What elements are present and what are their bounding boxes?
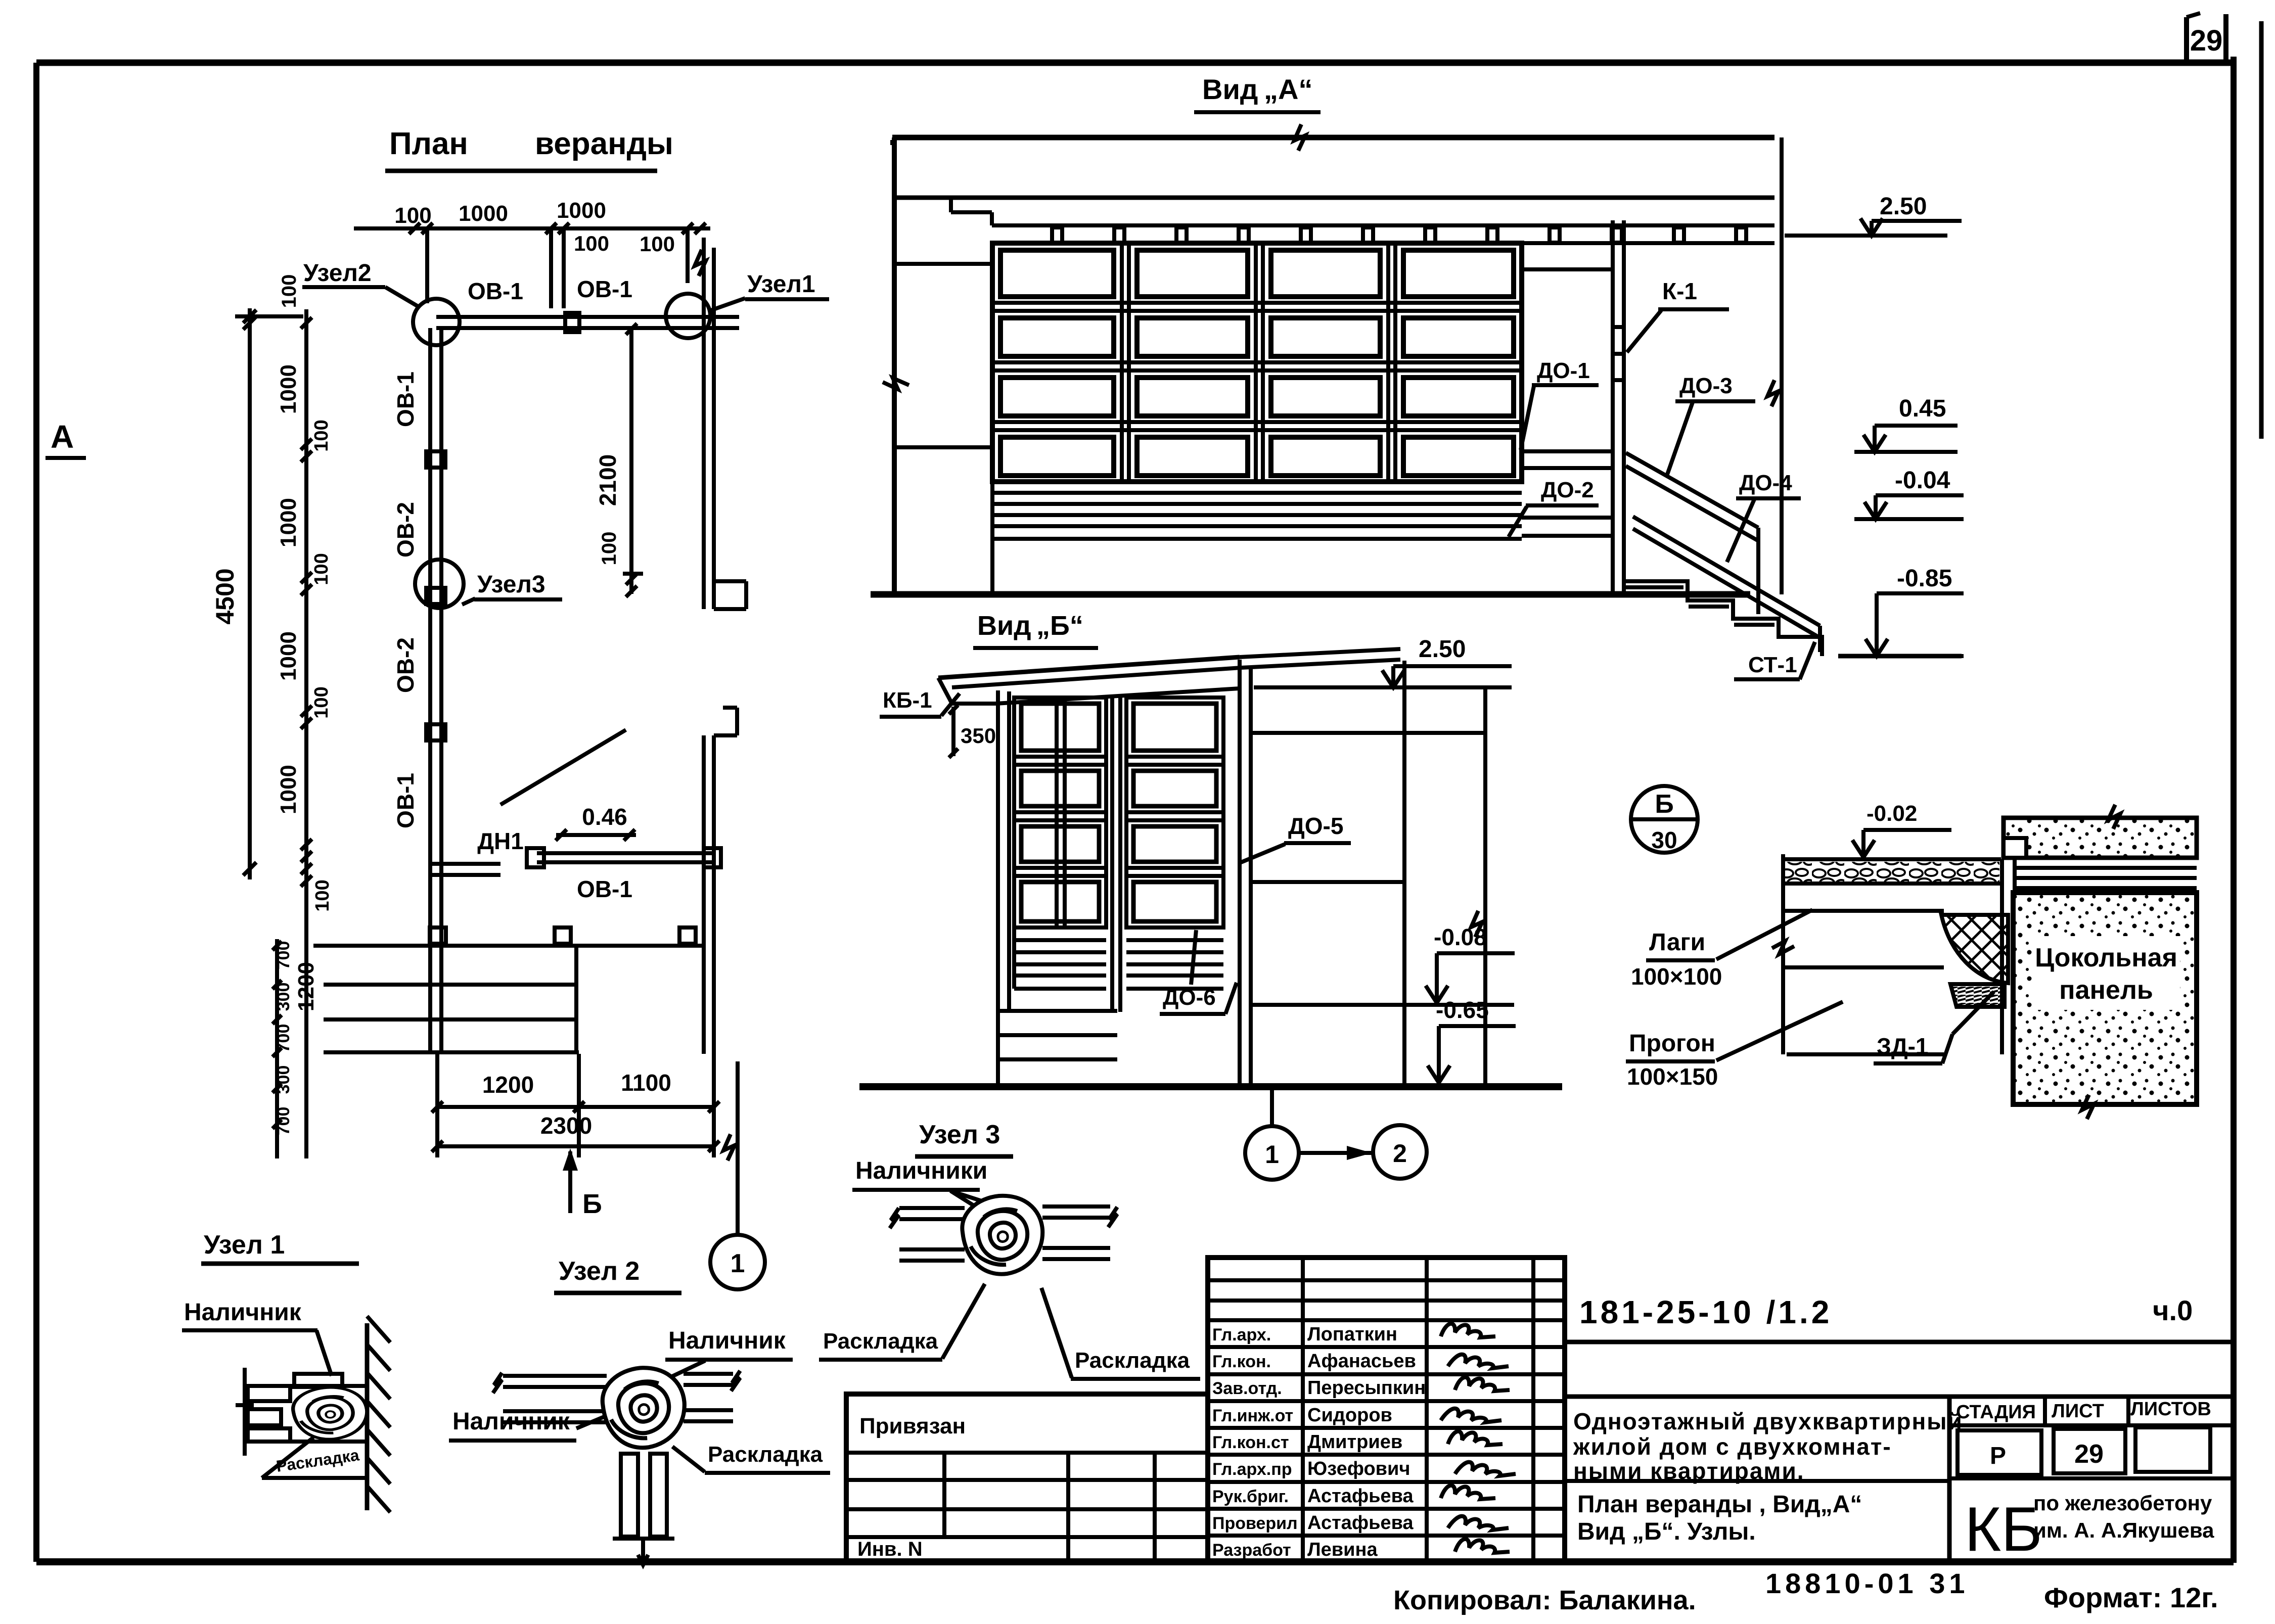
svg-text:Узел1: Узел1 xyxy=(747,271,815,298)
svg-text:1100: 1100 xyxy=(621,1070,671,1096)
svg-text:жилой дом с двухкомнат-: жилой дом с двухкомнат- xyxy=(1573,1433,1892,1460)
svg-text:1000: 1000 xyxy=(276,631,301,681)
svg-text:ДО-4: ДО-4 xyxy=(1739,471,1792,495)
svg-text:350: 350 xyxy=(961,724,996,748)
svg-text:ОВ-2: ОВ-2 xyxy=(392,502,419,558)
svg-text:Левина: Левина xyxy=(1307,1539,1378,1560)
svg-text:Узел 2: Узел 2 xyxy=(559,1257,640,1286)
svg-text:-0.85: -0.85 xyxy=(1897,565,1952,592)
svg-text:100: 100 xyxy=(311,420,332,451)
svg-text:-0.02: -0.02 xyxy=(1867,801,1917,826)
svg-text:100×100: 100×100 xyxy=(1631,963,1722,990)
svg-text:-0.08: -0.08 xyxy=(1434,924,1487,950)
svg-text:1000: 1000 xyxy=(276,498,301,547)
svg-text:Узел3: Узел3 xyxy=(477,571,545,598)
svg-text:2: 2 xyxy=(1393,1139,1407,1168)
svg-text:100: 100 xyxy=(311,553,332,585)
svg-text:Гл.арх.: Гл.арх. xyxy=(1212,1325,1271,1344)
svg-text:Раскладка: Раскладка xyxy=(1075,1348,1190,1373)
svg-text:Юзефович: Юзефович xyxy=(1307,1458,1410,1479)
svg-text:ДО-6: ДО-6 xyxy=(1163,985,1216,1010)
svg-text:Раскладка: Раскладка xyxy=(708,1442,823,1467)
svg-text:ОВ-1: ОВ-1 xyxy=(392,372,419,427)
svg-text:Пересыпкин: Пересыпкин xyxy=(1307,1377,1426,1399)
svg-text:Лаги: Лаги xyxy=(1649,929,1705,956)
svg-text:Разработ: Разработ xyxy=(1212,1541,1291,1560)
svg-text:1200: 1200 xyxy=(294,962,318,1011)
svg-text:Гл.инж.от: Гл.инж.от xyxy=(1212,1406,1293,1425)
svg-text:Дмитриев: Дмитриев xyxy=(1307,1431,1402,1453)
svg-text:4500: 4500 xyxy=(211,568,239,624)
svg-text:К-1: К-1 xyxy=(1662,278,1697,304)
svg-text:1: 1 xyxy=(731,1249,745,1278)
svg-text:панель: панель xyxy=(2059,976,2153,1005)
svg-text:1000: 1000 xyxy=(276,765,301,814)
svg-text:100: 100 xyxy=(598,532,620,566)
svg-text:1200: 1200 xyxy=(482,1072,534,1098)
svg-text:СТ-1: СТ-1 xyxy=(1748,653,1797,677)
svg-text:СТАДИЯ: СТАДИЯ xyxy=(1956,1402,2036,1423)
svg-text:Гл.арх.пр: Гл.арх.пр xyxy=(1212,1460,1292,1479)
svg-text:Привязан: Привязан xyxy=(859,1414,966,1439)
svg-text:им. А. А.Якушева: им. А. А.Якушева xyxy=(2033,1518,2214,1542)
svg-text:ОВ-1: ОВ-1 xyxy=(392,773,419,828)
svg-text:Раскладка: Раскладка xyxy=(823,1329,938,1354)
svg-text:2300: 2300 xyxy=(540,1112,592,1139)
svg-text:Б: Б xyxy=(582,1189,602,1219)
svg-text:100: 100 xyxy=(311,686,332,718)
svg-text:100: 100 xyxy=(312,879,333,911)
svg-text:План веранды , Вид„А“: План веранды , Вид„А“ xyxy=(1577,1491,1862,1518)
svg-text:Вид „Б“. Узлы.: Вид „Б“. Узлы. xyxy=(1577,1518,1756,1545)
svg-text:Р: Р xyxy=(1990,1443,2006,1469)
svg-text:Афанасьев: Афанасьев xyxy=(1307,1351,1416,1372)
svg-text:18810-01 31: 18810-01 31 xyxy=(1765,1567,1969,1599)
svg-text:Сидоров: Сидоров xyxy=(1307,1405,1392,1426)
svg-text:100×150: 100×150 xyxy=(1627,1063,1718,1090)
svg-text:1000: 1000 xyxy=(276,364,301,414)
svg-text:-0.04: -0.04 xyxy=(1895,467,1950,494)
svg-text:Гл.кон.: Гл.кон. xyxy=(1212,1352,1271,1371)
svg-text:29: 29 xyxy=(2190,24,2223,57)
svg-text:ОВ-1: ОВ-1 xyxy=(468,278,523,304)
svg-text:ДН1: ДН1 xyxy=(477,828,524,854)
svg-text:Наличник: Наличник xyxy=(184,1299,302,1326)
svg-text:Инв. N: Инв. N xyxy=(857,1538,923,1560)
svg-text:2100: 2100 xyxy=(595,454,621,506)
svg-text:ными квартирами.: ными квартирами. xyxy=(1573,1458,1805,1484)
svg-text:ч.0: ч.0 xyxy=(2153,1294,2193,1326)
svg-text:29: 29 xyxy=(2074,1440,2104,1469)
svg-text:Астафьева: Астафьева xyxy=(1307,1486,1414,1507)
svg-text:Гл.кон.ст: Гл.кон.ст xyxy=(1212,1433,1289,1452)
svg-text:100: 100 xyxy=(640,232,675,256)
svg-text:ДО-2: ДО-2 xyxy=(1541,478,1594,502)
svg-text:ОВ-1: ОВ-1 xyxy=(577,876,632,902)
svg-text:Наличники: Наличники xyxy=(855,1157,987,1184)
svg-text:30: 30 xyxy=(1651,827,1677,853)
svg-text:„А“: „А“ xyxy=(1264,73,1312,105)
svg-text:КБ: КБ xyxy=(1965,1495,2042,1564)
svg-text:ОВ-2: ОВ-2 xyxy=(392,637,419,693)
svg-text:Цокольная: Цокольная xyxy=(2035,943,2177,972)
svg-text:0.45: 0.45 xyxy=(1899,395,1946,422)
svg-text:ДО-3: ДО-3 xyxy=(1679,374,1733,398)
svg-text:0.46: 0.46 xyxy=(582,804,627,830)
svg-text:100: 100 xyxy=(278,274,300,308)
svg-text:Рук.бриг.: Рук.бриг. xyxy=(1212,1487,1289,1506)
svg-text:-0.65: -0.65 xyxy=(1436,997,1489,1023)
svg-text:Астафьева: Астафьева xyxy=(1307,1512,1414,1534)
svg-text:ЛИСТ: ЛИСТ xyxy=(2052,1401,2104,1422)
svg-text:План: План xyxy=(389,126,468,161)
svg-text:ДО-5: ДО-5 xyxy=(1288,813,1343,839)
svg-text:1000: 1000 xyxy=(459,201,508,226)
svg-text:1000: 1000 xyxy=(557,198,606,223)
svg-text:Наличник: Наличник xyxy=(668,1327,786,1354)
svg-text:Вид: Вид xyxy=(1202,73,1258,105)
svg-text:1: 1 xyxy=(1265,1140,1279,1169)
svg-text:Прогон: Прогон xyxy=(1629,1030,1715,1057)
svg-text:Проверил: Проверил xyxy=(1212,1514,1298,1533)
svg-text:по железобетону: по железобетону xyxy=(2033,1491,2212,1515)
svg-text:Одноэтажный двухквартирный: Одноэтажный двухквартирный xyxy=(1573,1408,1963,1434)
svg-text:КБ-1: КБ-1 xyxy=(883,688,932,713)
svg-text:Узел2: Узел2 xyxy=(303,260,372,287)
svg-text:ЗД-1: ЗД-1 xyxy=(1877,1033,1929,1059)
svg-text:„Б“: „Б“ xyxy=(1036,611,1083,641)
svg-text:ЛИСТОВ: ЛИСТОВ xyxy=(2130,1399,2211,1420)
svg-text:Узел 1: Узел 1 xyxy=(204,1230,285,1260)
svg-text:ОВ-1: ОВ-1 xyxy=(577,276,632,302)
svg-text:ДО-1: ДО-1 xyxy=(1537,358,1590,383)
svg-text:А: А xyxy=(51,419,74,455)
svg-text:100: 100 xyxy=(574,231,609,255)
svg-text:Узел 3: Узел 3 xyxy=(919,1120,1000,1149)
svg-text:веранды: веранды xyxy=(535,126,673,161)
svg-text:2.50: 2.50 xyxy=(1419,636,1466,663)
svg-text:100: 100 xyxy=(394,203,431,228)
svg-text:Вид: Вид xyxy=(977,611,1031,641)
svg-text:2.50: 2.50 xyxy=(1880,193,1927,220)
svg-text:Б: Б xyxy=(1655,790,1673,819)
svg-text:Зав.отд.: Зав.отд. xyxy=(1212,1379,1282,1398)
svg-text:181-25-10 /1.2: 181-25-10 /1.2 xyxy=(1579,1294,1832,1330)
svg-text:Лопаткин: Лопаткин xyxy=(1307,1324,1397,1345)
svg-text:Копировал: Балакина.: Копировал: Балакина. xyxy=(1393,1585,1696,1615)
svg-text:Формат: 12г.: Формат: 12г. xyxy=(2044,1582,2218,1613)
